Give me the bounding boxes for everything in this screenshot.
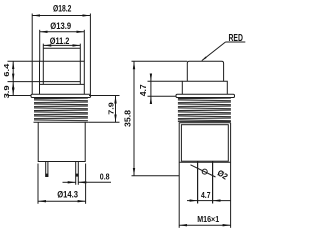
svg-text:Ø13.9: Ø13.9 [50, 21, 71, 32]
button cap front view (Ø11.2) [43, 44, 80, 85]
dimension 4.7 cap dim line middle [150, 81, 152, 96]
svg-text:4.7: 4.7 [201, 190, 211, 200]
extension line 3.9 bottom [8, 95, 32, 97]
dimension 4.7 pin spacing mid line [198, 200, 213, 202]
housing inner step line [43, 81, 80, 83]
dimension 7.9 dim line [115, 96, 117, 123]
dimension Ø11.2 dim line [43, 44, 80, 46]
terminal pin 1 tip [45, 174, 48, 177]
button housing front view (Ø13.9) [40, 61, 85, 94]
terminal pin side view left [197, 161, 199, 203]
extension line 7.9 top [89, 95, 120, 97]
extension line 6.4 top [8, 60, 40, 62]
dimension 35.8 dim line [133, 61, 135, 176]
threads front view [34, 98, 88, 121]
dimension M16 left extension line [178, 123, 180, 228]
dimension Ø18.2 left extension line [31, 14, 33, 95]
dimension Ø14.3 dim line [38, 200, 86, 202]
dimension 3.9 dim line [12, 82, 14, 96]
svg-text:Ø18.2: Ø18.2 [53, 4, 71, 15]
thread end line [34, 121, 89, 123]
extension line 7.9 bottom [88, 121, 119, 123]
svg-text:6.4: 6.4 [2, 63, 11, 77]
thread end line side view [178, 121, 231, 123]
dimension Ø18.2 right extension line [89, 14, 91, 95]
dimension Ø14.3 right extension line [85, 164, 87, 204]
hole Ø2 circle [202, 169, 207, 174]
dimension Ø18.2 dim line [32, 15, 90, 17]
svg-text:RED: RED [229, 33, 243, 44]
svg-text:4.7: 4.7 [139, 84, 148, 97]
dimension 4.7 pin spacing right arrow [213, 200, 231, 202]
housing lower edge line [40, 83, 85, 85]
terminal pin 2 [76, 162, 79, 185]
dimension 0.8 right line [78, 181, 111, 183]
dimension 35.8 top extension line [132, 60, 188, 62]
switch body side view outer [179, 123, 230, 163]
button step side view [182, 81, 227, 94]
dimension 0.8 left arrow [63, 181, 76, 183]
svg-text:7.9: 7.9 [107, 102, 116, 115]
flange front view (Ø18.2) [31, 94, 91, 97]
svg-text:M16×1: M16×1 [197, 214, 219, 224]
flange side view [176, 94, 235, 97]
dimension Ø13.9 dim line [40, 31, 85, 33]
switch body front view [38, 122, 85, 161]
terminal pin 2 tip [75, 174, 78, 177]
hole Ø2 leader line [191, 165, 216, 177]
svg-text:3.9: 3.9 [2, 85, 11, 98]
dimension 4.7 cap top outside arrow [150, 74, 152, 81]
svg-text:35.8: 35.8 [124, 109, 133, 127]
RED label underline [226, 41, 246, 43]
dimension 4.7 pin spacing left arrow [187, 200, 198, 202]
dimension 4.7 cap lower extension line [148, 95, 177, 97]
dimension Ø13.9 right extension line [83, 30, 85, 61]
threads side view [178, 98, 231, 121]
RED leader line [202, 42, 226, 61]
dimension 4.7 cap bottom outside arrow [150, 96, 152, 103]
body inner face side view [181, 125, 228, 162]
button cap side view [187, 61, 223, 81]
terminal pin 1 [46, 162, 48, 177]
dimension M16 right extension line [230, 123, 232, 228]
dimension Ø13.9 left extension line [39, 30, 41, 61]
terminal pin side view right [212, 161, 214, 203]
dimension 6.4 dim line [12, 61, 14, 81]
extension line 6.4/3.9 middle [8, 81, 44, 83]
svg-text:Ø11.2: Ø11.2 [50, 36, 70, 47]
dimension Ø14.3 left extension line [37, 164, 39, 204]
svg-text:0.8: 0.8 [100, 172, 110, 182]
svg-text:Ø2: Ø2 [216, 167, 230, 181]
dimension 4.7 cap upper extension line [148, 80, 183, 82]
dimension M16x1 dim line [179, 224, 230, 226]
svg-text:Ø14.3: Ø14.3 [57, 190, 78, 201]
dimension 35.8 bottom extension line [132, 175, 180, 177]
